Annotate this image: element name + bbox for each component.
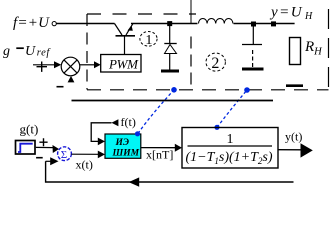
svg-text:1: 1 [227, 132, 234, 147]
plus sign at summer [39, 138, 47, 146]
svg-text:x(t): x(t) [76, 158, 93, 172]
dashed divider between section 1 and 2 [190, 0, 192, 24]
feedback direction arrow [129, 177, 140, 186]
inductor L (section 2) [199, 18, 233, 23]
svg-text:ИЭ: ИЭ [115, 138, 130, 148]
svg-text:x[nT]: x[nT] [146, 148, 173, 162]
plus sign at comparator [37, 62, 48, 72]
minus sign at comparator [57, 86, 64, 88]
f(t) input wire [91, 123, 111, 142]
node capacitor tap [251, 22, 256, 27]
PWM block [101, 55, 141, 73]
step icon [18, 144, 33, 152]
wire comparator to PWM [80, 64, 95, 66]
summer (blue sigma) [58, 147, 72, 161]
comparator (circle X) [61, 57, 80, 76]
svg-text:Σ: Σ [61, 149, 67, 161]
svg-text:f(t): f(t) [121, 115, 136, 129]
svg-text:2: 2 [211, 55, 219, 72]
wire step to summer [36, 146, 54, 148]
output arrow [301, 143, 313, 157]
svg-text:g(t): g(t) [20, 122, 39, 137]
svg-text:y(t): y(t) [285, 130, 302, 144]
node output tap [271, 21, 276, 26]
input terminal [52, 22, 56, 26]
svg-text:PWM: PWM [108, 57, 139, 72]
capacitor C [242, 26, 264, 69]
feedback arrow into comparator bottom [68, 76, 75, 83]
svg-text:U: U [25, 44, 36, 59]
blue node on dashed box (section 2) [244, 87, 250, 93]
blue node on PWM element [135, 131, 140, 136]
svg-text:1: 1 [145, 33, 152, 48]
blue node on dashed box (section 1) [171, 87, 177, 93]
output wire [278, 149, 302, 151]
svg-text:g: g [3, 44, 10, 59]
wire summer to PWM element [71, 153, 98, 155]
svg-text:Н: Н [304, 11, 313, 22]
wire top-left [57, 23, 115, 25]
blue dashed link to transfer function block [217, 90, 247, 128]
dashed enclosure box [87, 9, 329, 90]
transistor VT [115, 24, 136, 55]
svg-text:ШИМ: ШИМ [112, 149, 140, 159]
label 2 (circled, filter section) [206, 53, 225, 71]
resistor RH [290, 38, 301, 65]
label 1 (circled, switch section) [140, 32, 157, 47]
wire PWM element to transfer block [141, 147, 176, 149]
wire top-right [131, 23, 198, 25]
blue node on transfer function block [214, 125, 219, 130]
arrow into comparator [33, 64, 55, 66]
diode VD [161, 26, 179, 71]
minus sign at summer [36, 157, 43, 159]
node diode tap [167, 21, 172, 26]
fraction bar [188, 145, 273, 147]
transfer function block [182, 128, 278, 169]
svg-text:ref: ref [37, 48, 52, 59]
svg-text:f=+U: f=+U [13, 15, 50, 31]
blue dashed link to PWM element block [138, 90, 174, 134]
svg-text:y=U: y=U [269, 5, 303, 21]
step source block [16, 141, 36, 155]
PWM pulse element block [105, 134, 141, 158]
feedback wire [46, 161, 294, 182]
separator line [72, 100, 274, 102]
feedback arrow into summer [46, 160, 51, 162]
